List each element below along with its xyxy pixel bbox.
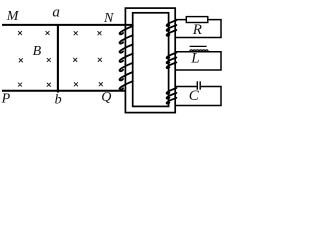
magnetic field B into page: cross symbols row 3 [18,83,102,87]
wire: C loop [175,87,221,106]
resistor R (box symbol) [186,17,208,23]
inductor L (squiggle with core bar) [190,46,209,51]
conducting rod a-b [57,24,59,93]
svg-text:a: a [52,4,60,20]
secondary winding group 1 (right limb, 3 turns) [167,20,177,36]
wire: bottom rail P-Q [2,90,126,92]
wire: L loop [175,52,221,70]
wire: R loop [175,20,221,38]
svg-text:N: N [103,11,114,26]
wire: top rail M-N [2,24,132,26]
secondary winding group 2 (right limb, 3 turns) [167,53,177,69]
magnetic field B into page: cross symbols row 2 [19,58,101,62]
primary winding (left limb, 7 turns) [120,26,133,90]
transformer core outer rectangle [125,8,175,113]
svg-text:Q: Q [101,90,111,105]
magnetic field B into page: cross symbols row 1 [18,31,101,35]
capacitor C plates [197,81,200,89]
svg-text:R: R [192,22,202,38]
transformer core inner rectangle [133,13,169,107]
svg-text:b: b [55,93,62,108]
svg-text:L: L [190,51,199,67]
svg-text:P: P [1,92,11,107]
svg-text:M: M [6,9,20,24]
svg-text:C: C [189,88,200,104]
svg-text:B: B [33,44,42,59]
secondary winding group 3 (right limb, 3 turns) [167,88,177,104]
